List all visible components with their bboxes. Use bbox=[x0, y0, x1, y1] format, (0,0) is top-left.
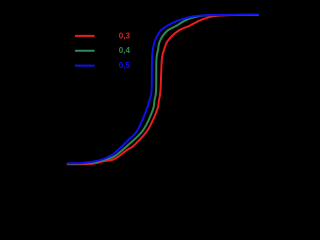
svg-text:0,5: 0,5 bbox=[119, 61, 131, 70]
svg-text:0,3: 0,3 bbox=[119, 31, 131, 40]
legend green line bbox=[75, 50, 95, 52]
svg-text:0,4: 0,4 bbox=[119, 46, 131, 55]
green curve 0,4 bbox=[68, 15, 259, 164]
legend blue line bbox=[75, 65, 95, 67]
red curve 0,3 bbox=[68, 15, 259, 164]
legend red line bbox=[75, 35, 95, 37]
blue curve 0,5 bbox=[68, 15, 259, 164]
